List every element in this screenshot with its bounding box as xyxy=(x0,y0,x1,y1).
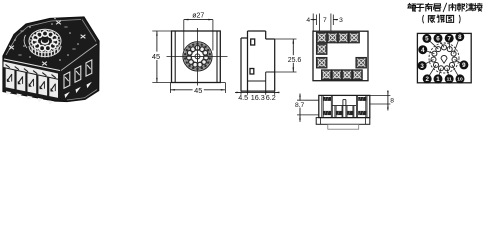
bottom elevation of socket xyxy=(316,95,370,129)
dimension 8 xyxy=(370,91,394,111)
svg-text:16.3: 16.3 xyxy=(251,93,265,102)
screw heads (hatched) xyxy=(323,97,331,101)
svg-text:7: 7 xyxy=(447,36,451,43)
terminal arrangement box xyxy=(417,33,471,82)
leader lines xyxy=(422,37,464,79)
svg-text:ø27: ø27 xyxy=(192,13,204,20)
svg-text:10: 10 xyxy=(457,77,463,83)
dimensions 4 7 3 xyxy=(306,14,343,32)
svg-text:3: 3 xyxy=(420,63,424,70)
svg-text:4: 4 xyxy=(421,47,425,54)
screw terminals top row xyxy=(316,32,327,43)
svg-text:9: 9 xyxy=(462,62,466,69)
dimension 45 horizontal xyxy=(170,83,225,96)
dimension 25.6 xyxy=(275,39,302,72)
svg-text:8.7: 8.7 xyxy=(295,102,305,109)
socket pins xyxy=(431,45,457,71)
svg-text:6: 6 xyxy=(436,36,440,43)
center keyway xyxy=(441,56,447,64)
svg-text:6.2: 6.2 xyxy=(266,93,276,102)
screw terminals left column xyxy=(316,44,327,55)
svg-text:3: 3 xyxy=(339,17,343,24)
svg-text:45: 45 xyxy=(194,86,202,95)
svg-text:25.6: 25.6 xyxy=(288,57,302,64)
terminal number discs xyxy=(418,32,469,83)
3D isometric socket picture xyxy=(3,17,99,105)
svg-text:4.5: 4.5 xyxy=(238,93,248,102)
clip latch 2 xyxy=(250,69,254,75)
svg-text:11: 11 xyxy=(447,77,452,83)
side view profile xyxy=(241,31,275,91)
clip latch 1 xyxy=(251,39,255,45)
dashed pin circle xyxy=(429,43,459,73)
svg-text:45: 45 xyxy=(152,52,160,61)
dimension 8.7 xyxy=(294,94,319,122)
front view with 11 screw terminals xyxy=(313,31,368,80)
svg-text:4: 4 xyxy=(306,17,310,24)
svg-text:8: 8 xyxy=(458,34,462,41)
svg-text:5: 5 xyxy=(425,36,429,43)
dimension 4.5 16.3 6.2 xyxy=(235,91,280,102)
screw terminal right xyxy=(356,57,367,68)
top view: 45x45 square with ø27 circle xyxy=(167,28,228,86)
svg-text:8: 8 xyxy=(390,98,394,105)
dimension ø27 xyxy=(184,13,213,51)
title: terminal layout / internal connections (CJK hand-drawn) xyxy=(408,3,416,11)
dimension 45 vertical xyxy=(151,31,172,83)
svg-text:1: 1 xyxy=(436,76,440,83)
clamp blocks (hatched) xyxy=(323,111,331,115)
screw terminals bottom row xyxy=(322,70,332,80)
svg-text:2: 2 xyxy=(425,76,429,83)
svg-text:7: 7 xyxy=(323,17,327,24)
